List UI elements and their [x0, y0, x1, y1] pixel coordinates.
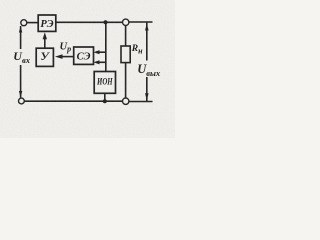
Uvx dimension line upper [20, 26, 22, 49]
output terminal top [123, 19, 129, 25]
wire SE to U amplifier [60, 56, 74, 58]
block СЭ [74, 47, 94, 64]
Uvyx dimension line upper [146, 22, 148, 61]
resistor Rn bottom wire [125, 63, 127, 98]
Uvx dimension line lower [20, 65, 22, 98]
sample line down from bus to ION [105, 22, 107, 71]
junction node on bottom bus [103, 99, 107, 103]
output terminal bottom [123, 98, 129, 104]
block ИОН [94, 72, 115, 94]
paper noise [0, 0, 1, 1]
resistor Rn body [121, 46, 130, 63]
wire U to RE [44, 36, 46, 48]
top bus left segment [56, 21, 123, 23]
top bus right segment [129, 21, 153, 23]
resistor Rn top wire [125, 26, 127, 47]
wire into SE lower [96, 61, 106, 63]
input terminal bottom-left [19, 98, 25, 104]
wire input to RE [27, 22, 38, 24]
Uvyx dimension line lower [146, 77, 148, 102]
ION bottom stub [104, 93, 106, 101]
bottom bus left segment [24, 100, 122, 102]
wire into SE upper [96, 51, 106, 53]
bottom bus right segment [129, 101, 153, 103]
junction node on top bus [104, 20, 108, 24]
block У [36, 48, 53, 66]
block РЭ [38, 15, 56, 31]
input terminal top-left [21, 20, 27, 26]
